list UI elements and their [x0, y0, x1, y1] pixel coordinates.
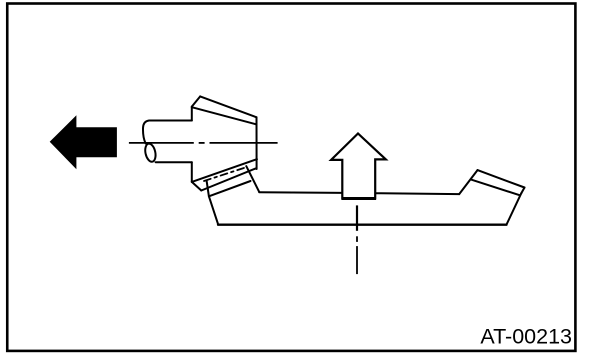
- bar bottom edge: [218, 224, 507, 226]
- left face upper segment: [191, 107, 193, 121]
- cone boss (frustum): [192, 96, 257, 190]
- strap right edge (down from cone): [246, 166, 259, 192]
- top front edge: [192, 107, 257, 124]
- lever strap (angled arm + horizontal bar): [204, 166, 525, 225]
- cylinder bottom edge: [156, 161, 192, 163]
- pad left edge: [459, 170, 477, 194]
- strap axis dash-dot: [204, 167, 248, 181]
- pad top edge: [478, 170, 525, 187]
- cylinder end cap ellipse: [144, 143, 157, 163]
- left black arrow (solid): [50, 115, 117, 169]
- pad right cap: [521, 188, 524, 194]
- cylinder top edge with rounded left corner: [143, 121, 192, 144]
- bottom back edge: [192, 159, 257, 182]
- right end rise edge: [507, 193, 522, 224]
- up arrow (outline): [331, 134, 386, 199]
- strap left edge (down from cone): [207, 181, 219, 225]
- bar top edge right segment: [375, 192, 459, 195]
- left face lower segment: [191, 162, 193, 182]
- bottom front edge: [201, 168, 256, 190]
- vertical center line below up arrow (dash-dot): [356, 205, 358, 274]
- top back edge: [200, 96, 256, 117]
- horizontal center line (dash-dot axis of shaft): [129, 142, 278, 144]
- bottom facet: [192, 182, 202, 191]
- bar top edge left segment: [259, 191, 342, 194]
- shaft cylinder: [143, 121, 192, 163]
- up arrow shaft bottom thick edge: [342, 197, 377, 200]
- svg-text:AT-00213: AT-00213: [480, 325, 572, 349]
- right face: [256, 117, 258, 169]
- strap crease: [209, 181, 251, 196]
- pad inner line: [471, 180, 520, 196]
- top facet: [192, 96, 200, 106]
